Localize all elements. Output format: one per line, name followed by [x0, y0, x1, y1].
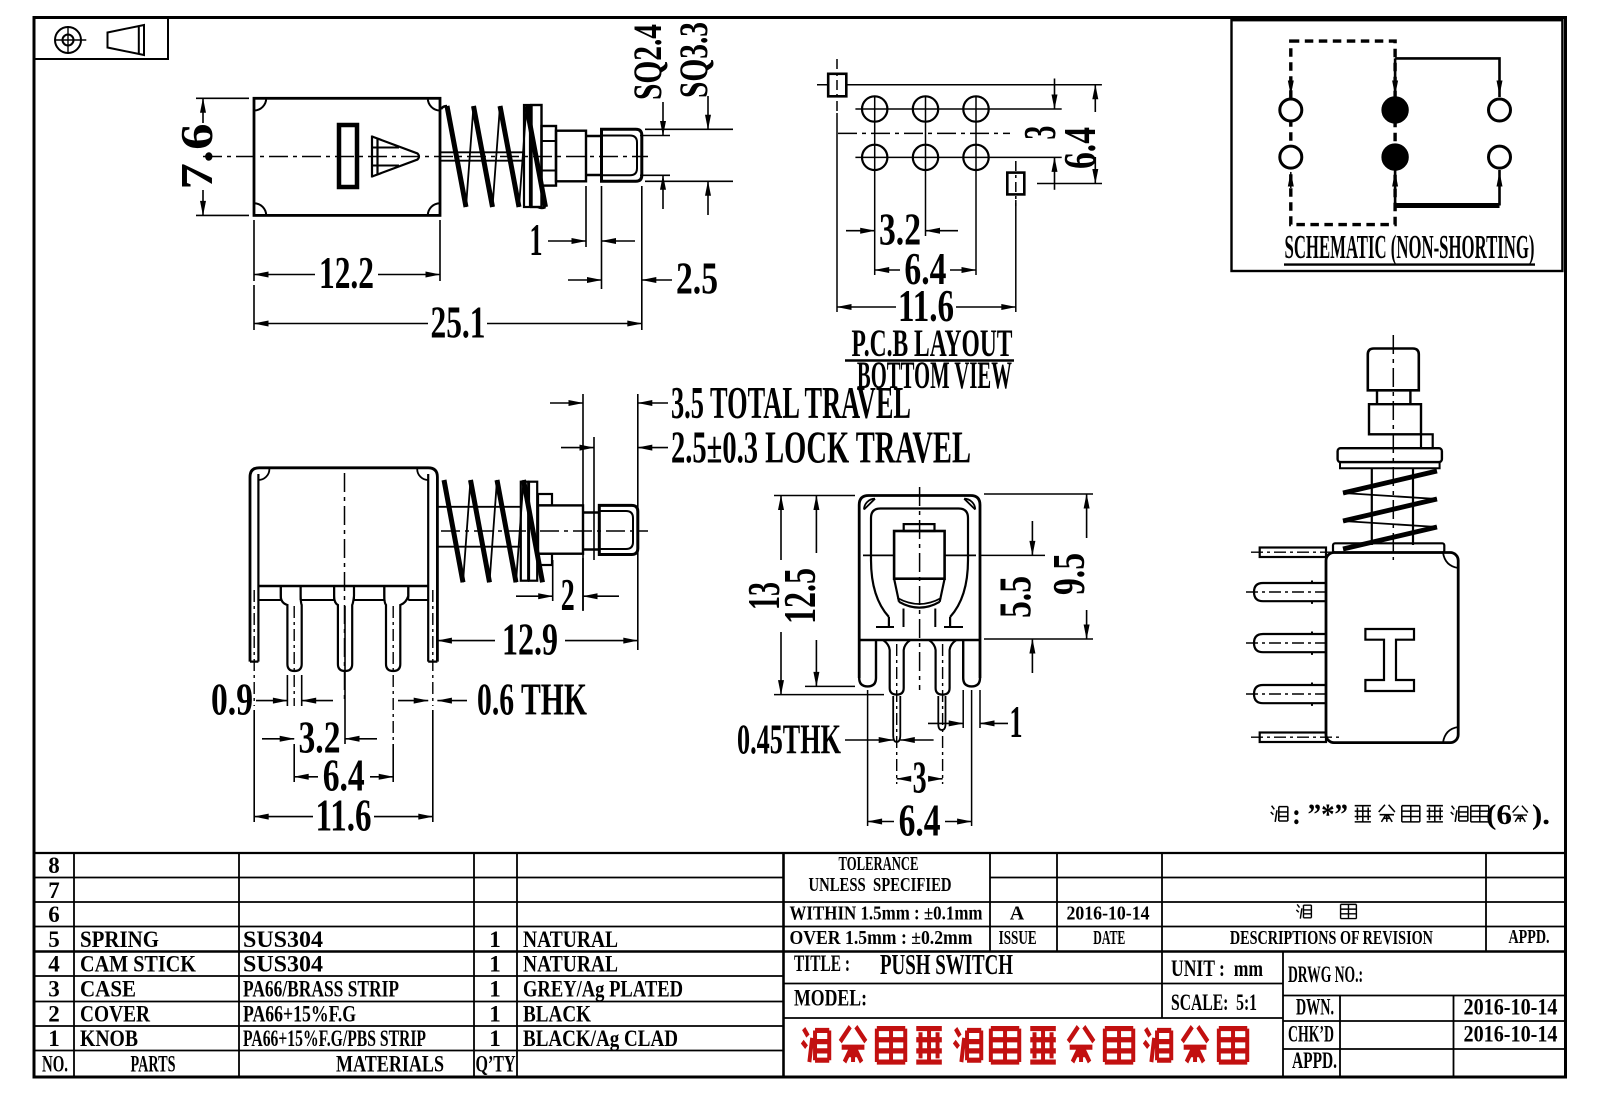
pad 1 centerline vertical [836, 59, 838, 113]
strip centerlines [253, 590, 255, 706]
washer plate 2 [529, 482, 537, 581]
PCB LAYOUT bottom view [817, 59, 1102, 312]
dimension 11.6 (view2) [254, 710, 433, 822]
dimension 3.2 (pcb) [846, 230, 958, 232]
quantities [489, 927, 501, 1051]
svg-text:TITLE :: TITLE : [794, 951, 850, 976]
terminal pin 1 [281, 586, 302, 671]
note text 注："*" 表示关键尺寸(6个). [1271, 805, 1528, 822]
dimension 12.5 [805, 496, 855, 687]
projection symbol box [34, 18, 168, 60]
svg-text:A: A [1010, 903, 1025, 925]
knob taper [894, 579, 945, 602]
svg-text:4: 4 [48, 952, 60, 977]
dimension 3.2 (view2) [262, 606, 377, 744]
dimension 25.1 [254, 186, 642, 330]
schematic top wire [1395, 58, 1499, 97]
svg-text:12.9: 12.9 [502, 614, 558, 665]
pad 2 centerline vertical [1015, 161, 1017, 206]
corner fillet BR [428, 203, 440, 215]
schematic bottom wire (thick) [1395, 203, 1499, 208]
projection symbol circle [55, 27, 81, 53]
svg-text:NATURAL: NATURAL [523, 952, 618, 977]
svg-text:OVER 1.5mm : ±0.2mm: OVER 1.5mm : ±0.2mm [790, 927, 973, 949]
spring coil [447, 106, 546, 207]
svg-text:SUS304: SUS304 [243, 927, 324, 952]
dimension 9.5 [984, 494, 1093, 639]
svg-text:CASE: CASE [80, 977, 136, 1002]
company name (red CJK placeholder glyphs) [802, 1027, 1247, 1062]
knob cap [904, 524, 935, 531]
svg-text:DRWG NO.:: DRWG NO.: [1288, 962, 1363, 987]
dimension 1 (leg) [928, 722, 1008, 724]
svg-text:SPRING: SPRING [80, 927, 159, 952]
svg-text:PA66+15%F.G/PBS STRIP: PA66+15%F.G/PBS STRIP [243, 1026, 426, 1051]
pin 1 [1254, 583, 1326, 601]
case body [1326, 553, 1458, 743]
svg-text:1: 1 [489, 927, 501, 952]
svg-text:2: 2 [561, 569, 575, 620]
top cover tab [1260, 548, 1326, 558]
svg-text:BLACK/Ag CLAD: BLACK/Ag CLAD [523, 1026, 678, 1051]
vertical centerline [919, 487, 921, 690]
dimension 0.9 (pin width) [256, 675, 333, 706]
schematic arrowheads [1290, 79, 1292, 95]
corner crimp mark bottom-right [1443, 727, 1458, 743]
dimension 6.4 (pcb) [875, 269, 976, 271]
svg-text:5.5: 5.5 [990, 576, 1041, 618]
washer plate 1 [524, 105, 530, 207]
bottom cover tab [1260, 733, 1326, 743]
svg-text:TOLERANCE: TOLERANCE [839, 853, 919, 875]
base boss strip with notches [281, 586, 409, 600]
svg-text:1: 1 [1010, 696, 1023, 747]
row crosshair lines [855, 108, 1061, 110]
svg-text:ISSUE: ISSUE [999, 927, 1037, 949]
corner fillet TR [417, 469, 428, 480]
neck [1377, 390, 1410, 404]
view centerline horizontal [838, 132, 1010, 134]
stem lines below dome [904, 609, 936, 628]
svg-text:1: 1 [530, 214, 543, 265]
svg-text:1: 1 [489, 1026, 501, 1051]
svg-text:CAM STICK: CAM STICK [80, 952, 196, 977]
projection symbol cone [108, 25, 145, 55]
washer plate 2 [532, 105, 542, 207]
pin centerlines [293, 606, 295, 706]
svg-text:NO.: NO. [42, 1052, 68, 1077]
front pin left [883, 640, 910, 695]
case bottom line [258, 585, 428, 587]
svg-text:2: 2 [48, 1002, 60, 1027]
svg-text:6: 6 [48, 902, 60, 927]
dimension 6.4 (view2) [294, 744, 393, 782]
dimension 2.5 (knob) [568, 279, 672, 281]
table vertical lines [73, 853, 75, 1077]
finishes [523, 927, 683, 1051]
svg-text:CHK’D: CHK’D [1288, 1022, 1334, 1047]
schematic contacts filled [1383, 98, 1408, 123]
svg-text:KNOB: KNOB [80, 1026, 138, 1051]
shaft neck [583, 513, 599, 550]
svg-text:0.9: 0.9 [211, 674, 253, 725]
corner fillet TL [254, 98, 266, 110]
svg-text:1: 1 [489, 952, 501, 977]
case bottom edge [859, 639, 980, 641]
svg-text:UNLESS SPECIFIED: UNLESS SPECIFIED [809, 874, 952, 896]
svg-text:APPD.: APPD. [1509, 926, 1550, 948]
svg-text:2016-10-14: 2016-10-14 [1464, 995, 1558, 1020]
svg-text:MODEL:: MODEL: [794, 986, 867, 1011]
centerline axis [203, 156, 648, 158]
left leg bottom [859, 640, 876, 686]
svg-text:2016-10-14: 2016-10-14 [1067, 903, 1150, 925]
column crosshair lines [874, 96, 876, 275]
corner fillet TR [964, 499, 975, 510]
knob top [1368, 349, 1419, 391]
svg-text:SQ2.4: SQ2.4 [625, 24, 670, 100]
leg edge extensions for dim 1 [963, 690, 980, 728]
dimension SQ2.4 [640, 102, 670, 209]
dimension 13 [774, 496, 884, 695]
svg-text:SUS304: SUS304 [243, 952, 324, 977]
svg-text:PA66+15%F.G: PA66+15%F.G [243, 1002, 356, 1027]
VIEW 2 : side view with terminals [250, 468, 648, 744]
pin 3 [1254, 685, 1326, 703]
svg-text:NATURAL: NATURAL [523, 927, 618, 952]
pin 2 [1254, 634, 1326, 652]
svg-text:1: 1 [489, 1002, 501, 1027]
leg centerline extensions [868, 690, 972, 826]
case body [254, 98, 440, 215]
svg-text:1: 1 [489, 977, 501, 1002]
body vertical centerline [344, 473, 346, 700]
vertical centerline [1392, 335, 1394, 560]
dimension 7.6 [196, 98, 249, 215]
svg-text:: ”*”: : ”*” [1292, 798, 1348, 831]
svg-text:9.5: 9.5 [1043, 553, 1094, 595]
svg-text:DWN.: DWN. [1296, 995, 1334, 1020]
svg-text:0.45THK: 0.45THK [737, 718, 841, 764]
svg-text:SQ3.3: SQ3.3 [671, 22, 716, 98]
cam step [1421, 434, 1433, 448]
corner fillet TR [428, 98, 440, 110]
dimension 0.45THK [845, 739, 934, 741]
dimension 2 (shaft) [516, 558, 619, 611]
washer layer 2 [1340, 462, 1440, 468]
table headers [131, 1052, 516, 1077]
knob [599, 505, 638, 554]
mounting pad square 2 [1007, 173, 1024, 195]
svg-text:Q’TY: Q’TY [476, 1052, 516, 1077]
dimension 2.5±0.3 LOCK TRAVEL [561, 437, 668, 560]
corner fillet BL [254, 203, 266, 215]
spring rod [437, 507, 521, 547]
svg-text:12.5: 12.5 [774, 568, 825, 624]
svg-text:SCALE: 5:1: SCALE: 5:1 [1171, 990, 1257, 1015]
parts names [80, 927, 196, 1051]
svg-text:APPD.: APPD. [1292, 1048, 1337, 1073]
corner fillet TL [864, 499, 875, 510]
dimension 12.2 [254, 220, 440, 281]
shaft section [1369, 404, 1421, 434]
SCHEMATIC box [1232, 20, 1563, 271]
table horizontal lines [35, 852, 1565, 854]
spring rod verticals [1372, 468, 1413, 545]
cover outline with side strips [250, 468, 437, 662]
schematic contacts open [1280, 99, 1302, 121]
svg-text:8: 8 [48, 853, 60, 878]
svg-text:1: 1 [48, 1026, 60, 1051]
VIEW 3 : front (end) view [859, 487, 980, 826]
body outline [859, 496, 980, 679]
svg-text:2016-10-14: 2016-10-14 [1464, 1022, 1558, 1047]
cam step top [538, 494, 552, 505]
svg-text:6.4: 6.4 [899, 795, 941, 846]
svg-text:PARTS: PARTS [131, 1052, 176, 1077]
svg-text:).: ). [1532, 799, 1550, 831]
svg-text:WITHIN 1.5mm : ±0.1mm: WITHIN 1.5mm : ±0.1mm [790, 903, 983, 925]
dimension 1 (neck) [548, 186, 635, 289]
VIEW 4 : free-standing vertical view [1246, 335, 1458, 743]
pad CL dimension extensions [837, 113, 1016, 312]
dimension 11.6 (pcb) [837, 306, 1016, 308]
dome arcs [899, 602, 940, 608]
spring rod [440, 152, 524, 160]
right leg bottom [963, 640, 980, 686]
dimension 6.4 vertical (pcb) [1094, 85, 1096, 184]
VIEW 1 : horizontal side view [203, 98, 648, 215]
dimension 3 (view3) [897, 778, 943, 780]
dimension 0.6 THK [398, 700, 467, 702]
case top plate [1333, 543, 1444, 552]
pin centerlines [897, 644, 943, 784]
corner crimp mark top-right [1443, 553, 1458, 569]
svg-text:UNIT : mm: UNIT : mm [1171, 956, 1263, 981]
svg-text:GREY/Ag PLATED: GREY/Ag PLATED [523, 977, 683, 1002]
pad1 center extension [817, 84, 1102, 86]
dimension SQ3.3 [645, 96, 733, 215]
cam step bottom [538, 554, 552, 565]
shoulder lines [876, 626, 963, 628]
stepped hub [542, 126, 557, 186]
svg-text:0.6 THK: 0.6 THK [477, 674, 587, 725]
knob square SQ3.3 [602, 129, 642, 181]
svg-text:2.5±0.3 LOCK TRAVEL: 2.5±0.3 LOCK TRAVEL [671, 422, 971, 473]
dimension 5.5 [980, 521, 1045, 673]
dimension 3 vertical (pcb) [1054, 79, 1056, 190]
svg-text:MATERIALS: MATERIALS [336, 1052, 444, 1077]
cavity horizontal line [863, 554, 976, 556]
knob slot window [339, 125, 357, 187]
svg-text:3.5 TOTAL TRAVEL: 3.5 TOTAL TRAVEL [671, 377, 911, 428]
mounting pad square 1 [828, 74, 846, 97]
schematic dashed frame [1291, 41, 1395, 225]
svg-text:7: 7 [48, 878, 60, 903]
front pin right [929, 640, 956, 695]
svg-text:DATE: DATE [1093, 927, 1125, 949]
corner fillet TL [258, 469, 269, 480]
knob inner contour [599, 511, 633, 549]
washer plate 1 [521, 482, 528, 581]
knob inner contour SQ2.4 [602, 136, 638, 176]
svg-text:3: 3 [48, 977, 60, 1002]
svg-text:COVER: COVER [80, 1002, 150, 1027]
shaft centerline [441, 530, 648, 532]
H mark [1365, 629, 1414, 691]
title block and parts table [35, 853, 1565, 1077]
rear pin edges left [893, 696, 900, 742]
rear pin edges right [938, 696, 945, 730]
svg-text:PA66/BRASS STRIP: PA66/BRASS STRIP [243, 977, 399, 1002]
materials [243, 927, 426, 1051]
svg-text:7.6: 7.6 [171, 124, 222, 190]
svg-text:12.2: 12.2 [319, 247, 374, 298]
knob front face [894, 531, 945, 579]
cam arrow base double line [372, 136, 378, 178]
svg-text:6.4: 6.4 [1054, 127, 1105, 169]
svg-text:PUSH SWITCH: PUSH SWITCH [880, 949, 1013, 981]
inner cavity contour [871, 509, 968, 628]
shaft neck [586, 136, 602, 175]
dimension 12.9 [437, 640, 637, 642]
shaft wide section [538, 505, 583, 553]
svg-text:5: 5 [48, 927, 60, 952]
row number labels [42, 853, 68, 1077]
terminal pin 2 [334, 586, 354, 671]
svg-text:DESCRIPTIONS OF REVISION: DESCRIPTIONS OF REVISION [1230, 927, 1433, 949]
svg-text:BLACK: BLACK [523, 1002, 591, 1027]
spring coil [444, 480, 543, 582]
cover inner wall lines [258, 474, 428, 662]
tolerance block text [790, 853, 1550, 949]
svg-text:25.1: 25.1 [431, 297, 486, 348]
pad2 center extension [1037, 183, 1102, 185]
dimension 6.4 (view3) [868, 821, 972, 823]
dimension 3.5 TOTAL TRAVEL [550, 394, 668, 650]
cam arrow triangle [372, 137, 419, 177]
revision description 初版 (CJK placeholder glyphs) [1296, 904, 1356, 918]
spring coil (3 turns) [1343, 471, 1437, 549]
svg-text:(6: (6 [1486, 799, 1512, 831]
pin hole circles [862, 96, 887, 121]
terminal pin 3 [384, 586, 408, 671]
shaft wide section [556, 131, 586, 182]
strip bottom caps [250, 660, 437, 662]
svg-text:SCHEMATIC (NON-SHORTING): SCHEMATIC (NON-SHORTING) [1285, 229, 1535, 266]
cam arrow inner lines [373, 148, 399, 166]
svg-text:2.5: 2.5 [676, 253, 718, 304]
washer plate [1338, 448, 1442, 462]
svg-text:11.6: 11.6 [316, 790, 372, 841]
